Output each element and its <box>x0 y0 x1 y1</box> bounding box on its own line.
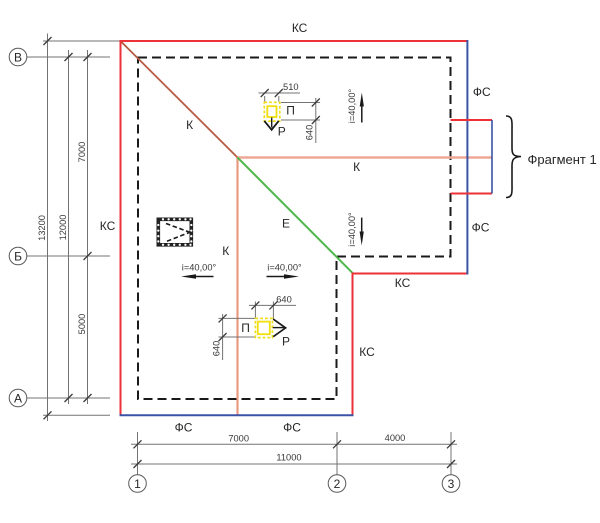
svg-text:КС: КС <box>359 345 375 359</box>
roof edge top red <box>120 40 468 42</box>
grid circle А <box>9 389 27 407</box>
svg-text:А: А <box>14 392 22 406</box>
svg-text:Р: Р <box>278 124 286 138</box>
svg-text:К: К <box>186 118 193 132</box>
svg-text:Р: Р <box>282 334 290 348</box>
axis line Б <box>27 255 111 257</box>
partition line vertical <box>236 158 238 415</box>
window opening dashes <box>166 224 190 233</box>
dimension line 7000/5000 <box>87 50 89 404</box>
svg-text:640: 640 <box>276 295 292 305</box>
grid circle 2 <box>328 475 346 493</box>
slope arrow right <box>267 276 288 278</box>
svg-text:П: П <box>241 321 250 335</box>
yellow hatch inner <box>267 106 276 117</box>
svg-text:ФС: ФС <box>472 221 490 235</box>
svg-text:13200: 13200 <box>37 215 47 241</box>
fragment bump bottom red <box>451 193 493 195</box>
ridge line horizontal <box>238 156 493 158</box>
svg-text:К: К <box>353 160 360 174</box>
svg-text:2: 2 <box>334 477 341 491</box>
bottom extension line grid 1 <box>137 432 139 475</box>
slope arrow up <box>361 104 363 123</box>
dashed wall outline <box>138 58 451 400</box>
svg-text:7000: 7000 <box>77 142 87 163</box>
svg-text:КС: КС <box>292 21 308 35</box>
dimension line 11000 <box>131 463 457 465</box>
dim 640 left <box>219 317 256 319</box>
window/hatch symbol <box>158 219 191 245</box>
roof edge notch top red <box>353 273 468 275</box>
arrow Р right <box>273 319 285 337</box>
valley line green <box>238 158 354 274</box>
svg-text:ФС: ФС <box>283 421 301 435</box>
svg-text:К: К <box>222 244 229 258</box>
axis line А <box>27 397 111 399</box>
svg-text:4000: 4000 <box>385 433 406 443</box>
svg-text:Б: Б <box>14 250 22 264</box>
arrow Р down <box>264 121 278 130</box>
yellow hatch outer dashed bottom <box>255 318 272 337</box>
dimension line 12000 <box>68 50 70 404</box>
top edge extension line <box>43 40 120 42</box>
fragment brace <box>506 116 521 198</box>
grid circle 3 <box>442 475 460 493</box>
svg-text:510: 510 <box>283 82 299 92</box>
dimension line 13200 <box>47 34 49 422</box>
svg-text:П: П <box>286 104 295 118</box>
svg-text:i=40,00°: i=40,00° <box>182 263 217 273</box>
ticks left dims <box>44 37 92 419</box>
svg-text:Е: Е <box>282 217 290 231</box>
svg-text:i=40,00°: i=40,00° <box>267 263 302 273</box>
fragment bump top red <box>451 119 493 121</box>
svg-text:640: 640 <box>305 125 315 141</box>
grid circle В <box>9 48 27 66</box>
svg-text:12000: 12000 <box>58 215 68 241</box>
dim 640 right of top hatch <box>281 102 320 104</box>
slope arrow down <box>361 218 363 236</box>
fragment bump right blue <box>491 120 493 194</box>
yellow hatch inner bottom <box>258 322 270 335</box>
bottom extension line grid 3 <box>450 432 452 475</box>
svg-text:640: 640 <box>212 341 222 357</box>
bottom extension line grid 2 <box>336 432 338 475</box>
svg-text:i=40,00°: i=40,00° <box>347 212 357 247</box>
ticks bottom dims <box>134 440 456 468</box>
svg-text:ФС: ФС <box>175 421 193 435</box>
svg-text:В: В <box>14 51 22 65</box>
svg-text:КС: КС <box>395 276 411 290</box>
grid circle 1 <box>129 475 147 493</box>
svg-text:3: 3 <box>448 477 455 491</box>
svg-text:5000: 5000 <box>77 314 87 335</box>
svg-text:Фрагмент 1: Фрагмент 1 <box>528 152 597 167</box>
svg-text:11000: 11000 <box>276 453 301 463</box>
svg-text:КС: КС <box>100 219 116 233</box>
dimension line 7000/4000 bottom <box>131 443 457 445</box>
axis line B <box>27 56 111 58</box>
bottom edge extension line <box>43 414 110 416</box>
roof edge bottom blue <box>120 414 354 416</box>
svg-text:i=40,00°: i=40,00° <box>347 88 357 123</box>
roof edge right blue <box>466 40 468 275</box>
svg-text:7000: 7000 <box>228 434 249 444</box>
svg-text:1: 1 <box>134 477 141 491</box>
dim 510 <box>264 96 266 102</box>
svg-text:ФС: ФС <box>473 85 491 99</box>
dim 640 above <box>254 302 256 319</box>
roof edge notch left red <box>352 273 354 416</box>
slope arrow left <box>193 276 214 278</box>
hip rafter diagonal <box>121 41 238 157</box>
grid circle Б <box>9 247 27 265</box>
yellow hatch outer dashed <box>264 102 280 121</box>
roof edge left red <box>120 40 122 415</box>
